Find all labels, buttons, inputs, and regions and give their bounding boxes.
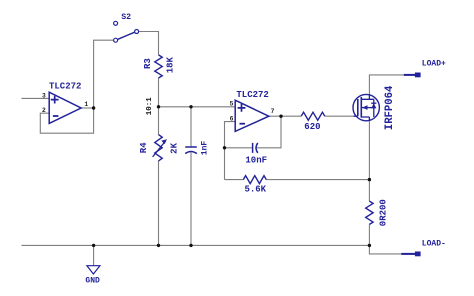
wire: R4 to ground rail bbox=[158, 161, 160, 246]
node 10:1 junction dot bbox=[157, 105, 160, 108]
wire: switch to R3 bbox=[139, 32, 159, 55]
svg-text:5: 5 bbox=[230, 100, 234, 107]
wire: node to R4 bbox=[158, 107, 160, 135]
wire: node 10:1 to pin 5 of U1B bbox=[159, 106, 236, 108]
svg-text:5.6K: 5.6K bbox=[244, 184, 266, 194]
wire: source down to 5.6K junction and 0R200 bbox=[368, 121, 370, 245]
svg-text:1nF: 1nF bbox=[200, 141, 209, 156]
capacitor 1nF bbox=[185, 141, 209, 156]
resistor 5.6K bbox=[243, 176, 266, 195]
svg-text:S2: S2 bbox=[121, 13, 131, 22]
svg-text:LOAD+: LOAD+ bbox=[422, 59, 446, 68]
svg-text:LOAD-: LOAD- bbox=[422, 240, 446, 249]
wire: U1A output riser to switch bbox=[94, 40, 114, 108]
wire: drain to LOAD+ row bbox=[369, 75, 404, 95]
resistor R4 2K (variable) bbox=[139, 135, 179, 161]
node: 1nF tap junction bbox=[189, 105, 192, 108]
svg-text:1: 1 bbox=[84, 101, 88, 108]
switch S2 bbox=[114, 13, 139, 42]
node: ground rail taps bbox=[92, 244, 95, 247]
svg-text:7: 7 bbox=[271, 108, 275, 115]
wire: 10nF feedback row bbox=[225, 116, 282, 148]
capacitor 10nF bbox=[245, 143, 267, 166]
svg-text:18K: 18K bbox=[166, 56, 176, 73]
wire: bottom ground rail bbox=[22, 244, 370, 246]
node: bottom-right junction bbox=[368, 244, 371, 247]
svg-text:620: 620 bbox=[304, 122, 320, 132]
svg-text:TLC272: TLC272 bbox=[49, 82, 81, 92]
svg-text:2: 2 bbox=[42, 107, 46, 114]
node: U1B output junction bbox=[279, 115, 282, 118]
svg-text:2K: 2K bbox=[170, 142, 180, 153]
wire: input to pin 3 of U1A bbox=[22, 97, 50, 99]
wire: pin 6 column of U1B bbox=[225, 122, 236, 180]
op-amp U1B TLC272 bbox=[230, 90, 275, 131]
node: U1A output junction bbox=[92, 106, 95, 109]
resistor 0R200 bbox=[366, 199, 389, 226]
svg-text:GND: GND bbox=[85, 276, 100, 285]
svg-text:R4: R4 bbox=[139, 142, 149, 153]
svg-text:R3: R3 bbox=[143, 58, 153, 69]
wire: U1A output bbox=[81, 107, 94, 109]
wire: 1nF cap column bbox=[190, 107, 192, 246]
resistor R3 18K bbox=[143, 55, 176, 78]
wire: R3 to node 10:1 bbox=[158, 78, 160, 107]
svg-text:10nF: 10nF bbox=[245, 155, 267, 165]
wire: pin 2 feedback loop of U1A bbox=[40, 108, 93, 133]
node: 10nF tap junction bbox=[223, 146, 226, 149]
node: source / 5.6K junction bbox=[368, 178, 371, 181]
wire: 620 to gate of Q1 bbox=[325, 115, 354, 117]
wire: LOAD- stub bbox=[369, 245, 401, 254]
wire: ground tap bbox=[93, 245, 95, 266]
svg-text:TLC272: TLC272 bbox=[236, 90, 268, 100]
svg-text:10:1: 10:1 bbox=[146, 97, 154, 116]
svg-text:IRFP064: IRFP064 bbox=[384, 85, 396, 130]
ground symbol bbox=[85, 266, 100, 286]
svg-text:0R200: 0R200 bbox=[379, 199, 389, 226]
op-amp U1A TLC272 bbox=[42, 82, 88, 124]
resistor 620 bbox=[301, 112, 325, 132]
svg-text:3: 3 bbox=[42, 92, 46, 99]
wire: U1B output to 620 bbox=[269, 115, 301, 117]
port LOAD+ bbox=[404, 59, 446, 77]
wire: 5.6K row to source column bbox=[225, 179, 370, 181]
port LOAD- bbox=[401, 240, 446, 257]
transistor Q1 IRFP064 (N-MOSFET) bbox=[353, 85, 396, 130]
svg-text:6: 6 bbox=[230, 115, 234, 122]
